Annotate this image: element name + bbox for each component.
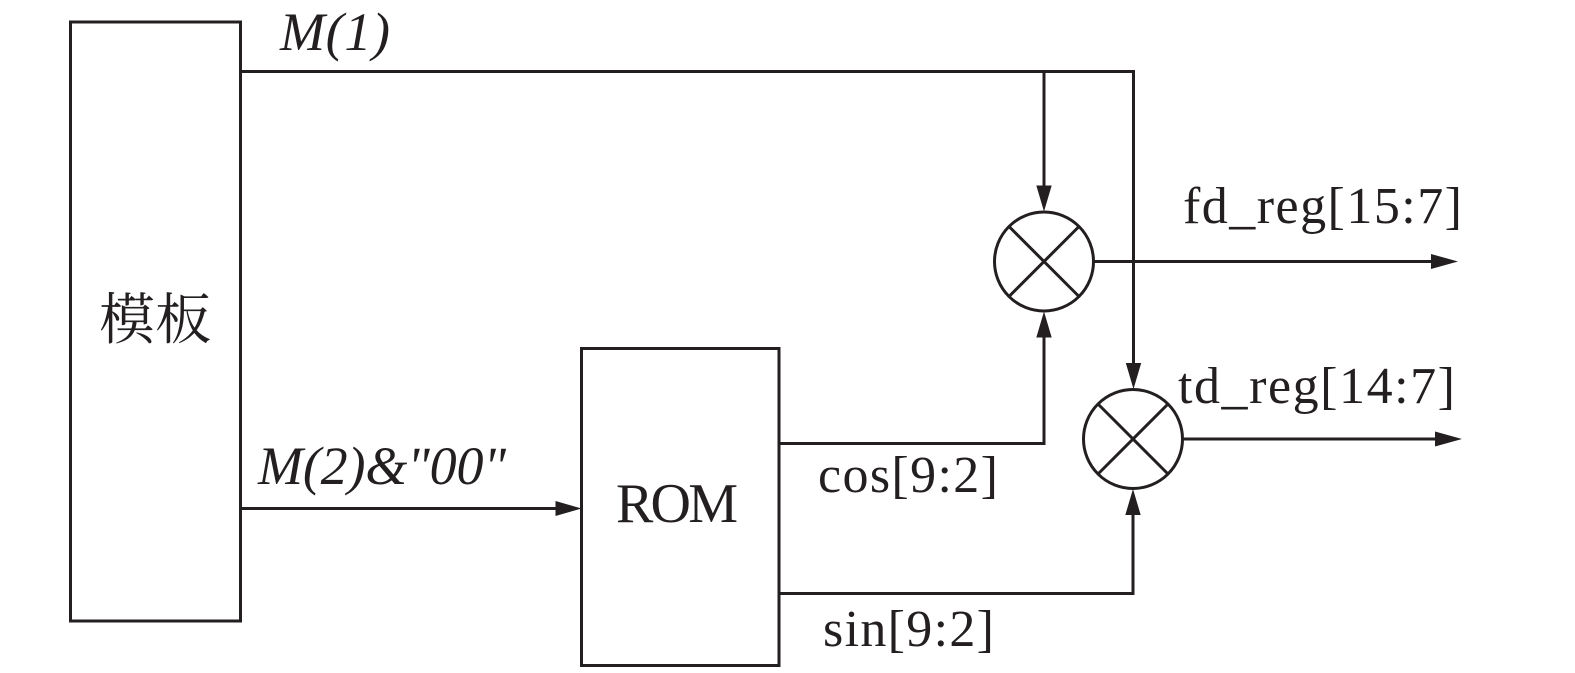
svg-text:sin[9:2]: sin[9:2]	[823, 601, 994, 658]
svg-text:td_reg[14:7]: td_reg[14:7]	[1178, 358, 1455, 415]
svg-text:M(2)&"00": M(2)&"00"	[257, 436, 506, 496]
svg-text:cos[9:2]: cos[9:2]	[818, 447, 998, 504]
svg-text:fd_reg[15:7]: fd_reg[15:7]	[1183, 178, 1462, 235]
svg-text:M(1): M(1)	[279, 2, 390, 62]
svg-text:ROM: ROM	[616, 473, 738, 535]
